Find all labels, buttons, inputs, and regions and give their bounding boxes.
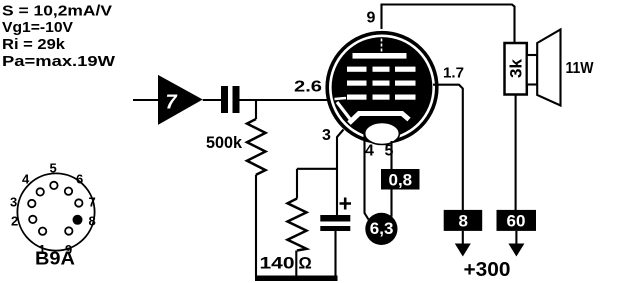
svg-text:1.7: 1.7 [443,65,464,82]
svg-text:2.6: 2.6 [294,79,322,96]
svg-text:9: 9 [367,10,376,27]
heater voltage circle 6,3 [365,213,397,245]
grid row 2 dashes [347,81,367,86]
arrow below 8 box [462,231,464,246]
svg-text:0,8: 0,8 [389,171,413,190]
pin 4 heater wire [365,134,369,220]
socket pin 5 hole [50,182,57,189]
resistor 500k zigzag [247,119,266,175]
resistor 500k lead top [255,100,257,119]
pin 9 wire up from tube [382,5,515,44]
resistor 140ohm zigzag [288,199,307,251]
B9A socket circle [17,173,94,250]
heater ellipse [365,123,400,145]
pin 5 heater wire [390,141,392,217]
input wire [133,99,158,101]
pin 1.7 wire to screen [433,85,463,210]
svg-text:500k: 500k [206,134,243,152]
electrolytic capacitor bottom plate [320,226,350,231]
svg-text:5: 5 [385,143,394,160]
socket pin 2 hole [29,216,36,223]
grid row 1 dashes [347,67,367,72]
svg-text:11W: 11W [566,60,595,77]
cathode white bar [349,114,409,124]
wire triangle to capacitor [203,99,221,101]
anode current box 60 [497,210,537,231]
svg-text:8: 8 [89,214,96,229]
svg-text:Pa=max.19W: Pa=max.19W [2,54,115,70]
svg-text:7: 7 [166,92,178,114]
socket pin 8 hole filled [73,215,83,225]
output transformer box 3k [505,43,527,95]
svg-text:60: 60 [507,212,526,231]
svg-text:5: 5 [50,161,57,176]
pin 3 cathode wire [337,130,344,216]
screen current box 8 [444,210,483,231]
resistor 140ohm lead bottom [295,251,297,278]
socket pin 7 hole [75,199,82,206]
socket pin 4 hole [37,188,44,195]
anode wire white trace inside disc [381,39,383,54]
speaker driver rect [527,55,537,85]
resistor 500k lead bottom [255,175,257,277]
svg-text:3: 3 [322,127,331,144]
electrolytic capacitor plus sign [340,198,352,210]
input triangle symbol 7 [158,75,203,125]
svg-text:8: 8 [459,212,468,231]
svg-text:B9A: B9A [35,249,75,269]
svg-text:+300: +300 [464,259,511,281]
svg-text:3: 3 [10,195,17,210]
speaker horn trapezoid [537,30,560,106]
tube inner black disc [332,37,433,138]
wire 3k box down to 60 box [515,95,517,211]
socket pin 1 hole [39,228,46,235]
coupling capacitor plate 2 [233,86,240,113]
electrolytic capacitor top plate [320,215,350,222]
grid row 3 dashes [347,95,367,100]
socket pin 9 hole [65,227,72,234]
svg-text:S = 10,2mA/V: S = 10,2mA/V [2,4,112,20]
socket pin 3 hole [28,200,35,207]
tube envelope circle [327,33,437,143]
wire capacitor to tube grid [240,99,331,101]
svg-text:6,3: 6,3 [370,219,394,238]
grid wire entry white trace [335,98,347,99]
svg-text:Ri = 29k: Ri = 29k [2,37,66,53]
coupling capacitor plate 1 [221,86,228,113]
svg-text:3k: 3k [507,59,526,78]
svg-text:7: 7 [89,195,96,210]
heater current box 0,8 [381,169,420,190]
electrolytic capacitor lead bottom [334,231,336,277]
ground bus bar [255,276,338,282]
svg-text:6: 6 [76,172,83,187]
svg-text:Vg1=-10V: Vg1=-10V [2,20,73,36]
cathode tail white diagonal to pin3 [337,102,352,122]
anode bar [353,53,407,59]
svg-text:140: 140 [260,255,295,273]
svg-text:Ω: Ω [299,255,312,273]
svg-text:2: 2 [11,214,18,229]
arrow below 60 box [515,231,517,246]
svg-text:4: 4 [22,172,30,187]
wire cathode branch to 140ohm [297,168,337,170]
svg-text:4: 4 [365,143,374,160]
socket pin 6 hole [65,188,72,195]
